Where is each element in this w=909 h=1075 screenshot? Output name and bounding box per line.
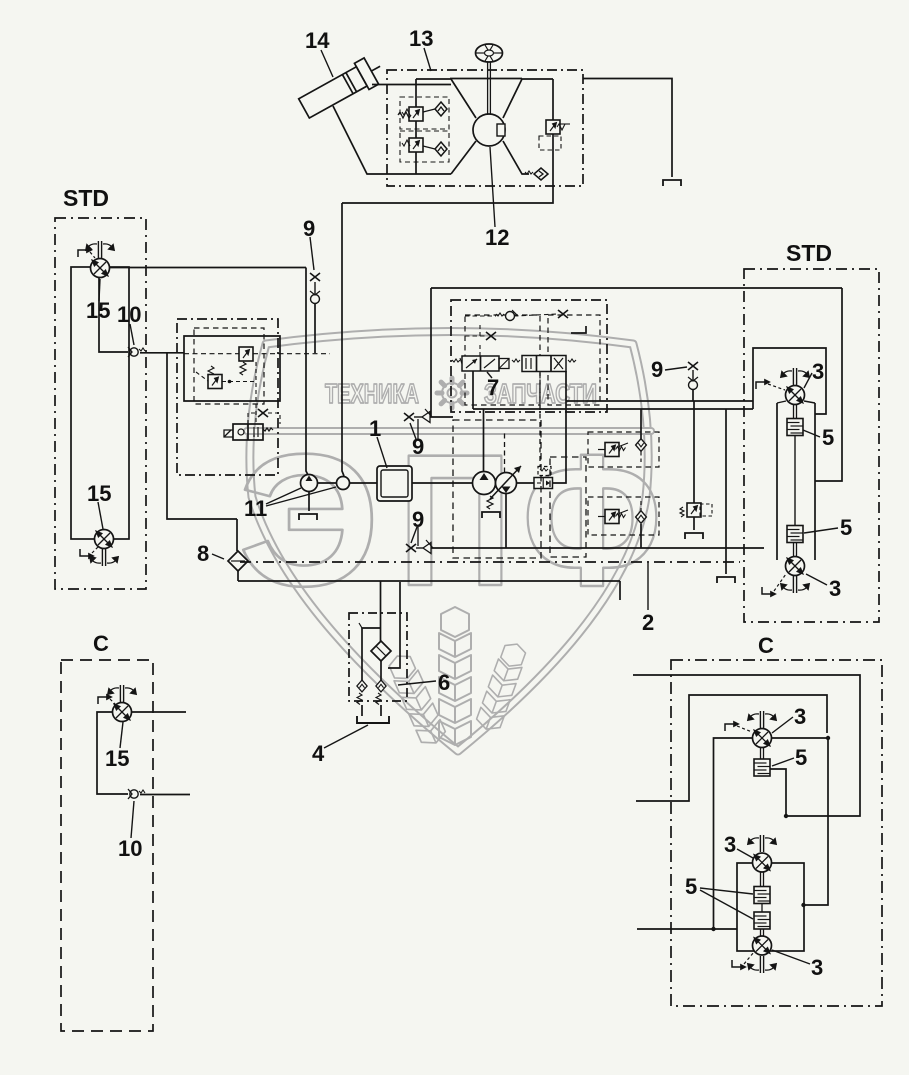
wire motor15a case to check 10 — [99, 278, 128, 352]
check valve 9d — [692, 370, 694, 380]
flag motor15 C — [98, 695, 111, 704]
relief valve R2 — [687, 503, 701, 517]
wire pump ports up — [483, 409, 485, 472]
svg-text:9: 9 — [412, 434, 424, 459]
check valve 6a with spring — [357, 680, 367, 692]
leader 3 bottom C — [772, 950, 810, 964]
motor 3 lower right STD — [786, 557, 805, 576]
check valve 9b — [414, 416, 422, 418]
flag motor 3 upper — [756, 380, 769, 389]
wire motor15C left loop — [97, 712, 128, 794]
dashed pilot wires top — [465, 315, 496, 317]
test point X 9b — [404, 413, 414, 421]
main pump B — [496, 473, 517, 494]
relief valve 13b — [409, 138, 423, 152]
brake release flag motor 15 upper — [78, 248, 91, 257]
rotation arrows motor15 C — [108, 685, 136, 702]
spring 4-3 right — [568, 359, 576, 362]
steering unit box 13 (dash-dot enclosure) — [387, 70, 583, 186]
leader 3 upper right STD — [804, 373, 812, 388]
svg-text:11: 11 — [244, 496, 267, 521]
svg-text:13: 13 — [409, 26, 433, 51]
wires RB — [640, 524, 642, 548]
leader 9 top-left — [310, 237, 314, 270]
wire servo to control valve — [553, 371, 567, 483]
brake release flag motor 15 lower — [80, 549, 93, 558]
motor 15 upper — [91, 259, 110, 278]
relief box A dashed — [588, 432, 659, 467]
charge pump 11 — [301, 475, 318, 492]
wire motorC top right port — [772, 737, 828, 739]
svg-text:5: 5 — [840, 515, 852, 540]
directional valve 4-3 — [522, 356, 566, 372]
test point X 9a — [310, 273, 320, 281]
svg-text:10: 10 — [117, 302, 141, 327]
check diamond RB — [636, 511, 647, 524]
svg-text:C: C — [758, 633, 774, 658]
servo valve 2pos — [534, 478, 553, 489]
check valve 13a — [435, 102, 447, 116]
svg-text:14: 14 — [305, 28, 330, 53]
main variable pump A — [473, 472, 496, 495]
wire drop x431 — [430, 288, 432, 417]
pilot dash box 13b — [400, 131, 449, 162]
charge line dashes — [184, 353, 239, 355]
tank drain right — [717, 577, 735, 583]
wire top header — [450, 78, 522, 80]
wires checks to tank 4 — [361, 705, 363, 716]
wire valve7 outlet down — [472, 371, 474, 404]
servo pilot box — [538, 467, 551, 476]
svg-text:8: 8 — [197, 541, 209, 566]
throttle X mid — [486, 332, 496, 340]
test X top — [558, 310, 568, 318]
shaft brake to brake lower — [794, 436, 796, 526]
wire supply header to right STD — [431, 287, 842, 289]
svg-text:9: 9 — [651, 357, 663, 382]
wire charge supply mid — [473, 408, 753, 410]
dashed box servo group — [550, 457, 586, 557]
motor 3 top C — [753, 729, 772, 748]
leader 3 top C — [772, 717, 793, 733]
cylinder 14 — [297, 53, 388, 121]
wire to tank right — [583, 79, 672, 178]
dashed sub box right valve — [548, 315, 600, 405]
wire R2 to tank — [693, 517, 695, 530]
tank under pump 11 — [299, 514, 317, 520]
wire check9b to x453 — [430, 416, 453, 418]
steering metering unit 12 — [473, 114, 505, 146]
watermark band — [247, 427, 651, 435]
wire cylinder port A — [372, 84, 451, 86]
svg-text:5: 5 — [822, 425, 834, 450]
wire right column — [552, 79, 554, 120]
leader 15 lower — [98, 502, 103, 529]
watermark wheat left ear — [385, 651, 448, 749]
relief box B dashed — [588, 497, 659, 535]
relief valve RA — [605, 443, 619, 457]
wire return drop with tank — [725, 409, 727, 574]
svg-text:9: 9 — [303, 216, 315, 241]
shaft brake to motor lower — [793, 543, 795, 557]
wire filter6 bypass — [362, 628, 381, 681]
svg-text:3: 3 — [812, 359, 824, 384]
steering wheel — [476, 44, 503, 62]
relief valve 13c right — [546, 120, 560, 134]
shaft box1 to main pump — [412, 482, 473, 484]
wire return drop to charge pump — [342, 203, 344, 476]
check valve 13b — [435, 142, 447, 156]
label2 leader — [647, 563, 649, 610]
lower wheel loop rect — [737, 863, 804, 951]
svg-text:12: 12 — [485, 225, 509, 250]
leader 10 upper — [130, 324, 134, 345]
bottom-left C enclosure (dashed) — [61, 660, 153, 1031]
wire pump B suction — [505, 494, 507, 549]
shaft gear pump to box 1 — [350, 482, 378, 484]
wire check9a down to charge line — [314, 303, 316, 353]
svg-text:2: 2 — [642, 610, 654, 635]
wire stub C bottom — [637, 928, 737, 930]
motor 15 C — [113, 703, 132, 722]
wire bowtie lower-right — [503, 141, 529, 174]
check valve 9c lower — [416, 547, 423, 549]
steering column shaft — [487, 62, 489, 114]
leader 9 right — [665, 367, 687, 370]
wire pumpB to servo — [517, 482, 535, 484]
wire motor15C right — [132, 711, 187, 713]
brake 5 lower right STD — [787, 526, 803, 543]
check valve 13d with spring — [534, 168, 548, 180]
filter 6 — [371, 641, 391, 661]
leader 9 low — [411, 527, 417, 543]
svg-text:7: 7 — [487, 375, 499, 400]
tank T1 — [663, 180, 681, 186]
flag motor 3 lower — [762, 587, 775, 596]
brake 5 middle C — [754, 887, 770, 904]
leader 8 — [212, 554, 224, 559]
leader label 4 — [324, 725, 368, 748]
watermark shield outline — [250, 332, 648, 752]
rotation arrows motor 3 lower — [781, 576, 809, 593]
wire motorC top left port — [714, 738, 753, 929]
motor 3 middle C — [753, 853, 772, 872]
svg-text:3: 3 — [811, 955, 823, 980]
leader 3 lower right STD — [806, 574, 827, 585]
svg-text:15: 15 — [105, 746, 129, 771]
tank under pump A — [482, 512, 500, 518]
flag motor3 top C — [725, 722, 738, 731]
rotation arrows motor 15 lower — [90, 549, 118, 566]
rotation arrows motor 3 upper — [781, 368, 809, 385]
watermark wheat center ear — [385, 607, 529, 748]
rotation arrows motor 15 upper — [86, 241, 114, 258]
motor 15 lower — [95, 530, 114, 549]
brake 5 upper right STD — [787, 419, 803, 436]
svg-text:ТЕХНИКА: ТЕХНИКА — [325, 378, 419, 409]
wire bowtie lower-left — [451, 141, 476, 174]
assembly boundary dash-dot bottom — [240, 561, 740, 563]
svg-text:10: 10 — [118, 836, 142, 861]
check valve 6b with spring — [376, 680, 386, 692]
inching valve (3-pos) — [233, 424, 263, 440]
svg-text:15: 15 — [86, 298, 110, 323]
control valve enclosure box (dash-dot) — [451, 300, 607, 412]
wire return drop x400 — [388, 582, 400, 668]
leader 3 middle C — [737, 849, 753, 858]
leader 9 mid — [410, 423, 416, 439]
leader label 6 — [398, 681, 436, 685]
wire right drop to lower group — [804, 738, 828, 905]
pilot dash box 13a — [400, 97, 449, 129]
relief valve 13a — [409, 107, 423, 121]
svg-text:3: 3 — [724, 832, 736, 857]
relief valve V1 — [239, 347, 253, 361]
gear pump small — [337, 477, 350, 490]
wire pump11 drain to tank — [308, 492, 310, 512]
wire stub B middle — [636, 695, 827, 801]
motor loop right STD — [776, 403, 778, 560]
tank under R2 — [685, 533, 703, 539]
svg-text:5: 5 — [795, 745, 807, 770]
wire pilot drop — [539, 371, 541, 467]
pilot dashed links — [222, 381, 256, 383]
check diamond RA — [636, 439, 647, 452]
leader 12 — [490, 147, 495, 227]
wire filter6 out — [380, 661, 382, 681]
left STD enclosure (dash-dot) — [55, 218, 146, 589]
leader 14 — [321, 50, 333, 77]
relief column left vertical — [415, 79, 417, 107]
throttle X — [258, 409, 268, 417]
motor 3 bottom C — [753, 936, 772, 955]
wire valves pilot drops — [479, 345, 481, 356]
pilot check with spring top — [506, 312, 515, 321]
leader 5 top C — [772, 758, 794, 766]
leader 7 — [487, 372, 492, 378]
leader 13 — [424, 48, 431, 71]
wire steering return — [342, 174, 553, 203]
shaft motor3a to brake — [793, 405, 795, 419]
watermark gear — [437, 378, 467, 408]
left valve assembly enclosure (dash-dot) — [177, 319, 278, 475]
svg-text:9: 9 — [412, 507, 424, 532]
svg-text:6: 6 — [438, 670, 450, 695]
wire suction drop to filter 6 — [380, 581, 382, 641]
watermark group (gray) — [238, 332, 662, 752]
svg-text:STD: STD — [63, 185, 109, 211]
wire bowtie upper-left — [416, 79, 476, 118]
inching valve spring — [263, 428, 273, 431]
spring 4-3 left — [512, 359, 520, 362]
flag motor3 bottom C — [732, 960, 745, 969]
wire charge suction drop — [167, 353, 237, 519]
svg-text:STD: STD — [786, 240, 832, 266]
bottom-right C enclosure (dash-dot) — [671, 660, 882, 1006]
solenoid actuator valve 7 — [499, 359, 509, 369]
wire stub A top — [633, 675, 860, 816]
rotation arrows motor3 top C — [748, 711, 776, 728]
pilot dash box around reliefs — [194, 328, 264, 404]
reservoir assembly box 6 (dash-dot) — [349, 613, 407, 701]
wire charge mid header right portion — [566, 400, 753, 402]
svg-text:1: 1 — [369, 416, 381, 441]
test point X 9c lower — [406, 544, 416, 552]
watermark wheat right ear — [474, 640, 528, 734]
charge relief spring under pump A — [487, 496, 493, 509]
svg-text:15: 15 — [87, 481, 111, 506]
filter 8 — [228, 551, 248, 571]
shaft brake to motor bottom C — [760, 929, 762, 938]
leader 5 lower right STD — [804, 528, 838, 533]
inching valve lever — [224, 430, 233, 437]
brake 5 top C — [754, 759, 770, 776]
spring valve 7 left — [452, 359, 460, 362]
shaft motor3mid to brake — [760, 872, 762, 887]
leader 15 upper — [99, 279, 100, 301]
test point X 9d right — [688, 362, 698, 370]
relief valve RB — [605, 510, 619, 524]
rotation arrows motor3 bottom C — [748, 956, 776, 973]
left STD inner loop rect — [71, 267, 129, 539]
leader 10 C — [131, 801, 134, 838]
wire relief drop x694 — [693, 401, 695, 503]
rotation arrows motor3 middle C — [748, 835, 776, 852]
wire check10C right — [140, 794, 190, 796]
dashed box pump group — [453, 420, 541, 558]
motor 3 upper right STD — [786, 386, 805, 405]
shaft pump11 to gear pump — [318, 482, 337, 484]
leader 5 upper right STD — [803, 430, 820, 437]
check valve 10 upper — [128, 347, 145, 357]
svg-text:C: C — [93, 631, 109, 656]
wire motor15a to main — [110, 267, 306, 269]
left valve assembly inner rect — [184, 336, 280, 401]
wire filter column — [236, 519, 238, 551]
svg-text:3: 3 — [829, 576, 841, 601]
svg-text:5: 5 — [685, 874, 697, 899]
leader 5 mid double — [700, 888, 753, 894]
coupling box 1 — [377, 466, 412, 501]
wires RA — [640, 409, 642, 439]
wire drop x306 to charge pump 11 — [306, 268, 308, 476]
wire check10 to valve block — [140, 352, 184, 354]
shaft motor3C to brake — [760, 748, 762, 760]
leader 1 — [377, 437, 387, 468]
junction dots C box — [826, 736, 830, 740]
check valve 10 C — [128, 789, 145, 799]
relief valve V2 — [208, 375, 222, 389]
svg-text:3: 3 — [794, 704, 806, 729]
leader 11 double — [266, 488, 301, 504]
svg-text:4: 4 — [312, 741, 325, 766]
wire main suction header — [238, 580, 620, 582]
wire charge to right STD — [753, 348, 826, 414]
right STD feed vertical — [815, 288, 842, 481]
wire cylinder port B — [333, 106, 451, 174]
wire brake release to drop — [770, 769, 786, 816]
wire low pressure header — [431, 547, 764, 549]
dashed sub box left valve — [465, 315, 540, 405]
tank 4 — [357, 716, 389, 723]
check valve 9a — [314, 282, 316, 294]
leader 15 C — [120, 722, 123, 748]
solenoid valve 7 — [462, 356, 499, 371]
wire bowtie upper-right — [503, 79, 553, 118]
right STD enclosure (dash-dot) — [744, 269, 879, 622]
brake 5 lower C — [754, 912, 770, 929]
variable displacement arrow — [490, 466, 521, 499]
wire check9d to header — [692, 389, 694, 401]
